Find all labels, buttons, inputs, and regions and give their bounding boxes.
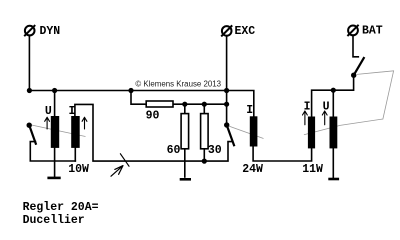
arrow up coil U 11W bbox=[322, 111, 327, 125]
wire coil U(10W) bottom to ground bbox=[54, 148, 56, 177]
coil U 11W bbox=[330, 117, 338, 149]
node R90-R60 bbox=[182, 102, 187, 107]
coil I 24W bbox=[250, 116, 258, 146]
svg-text:10W: 10W bbox=[68, 163, 89, 176]
node rail-R30 bbox=[202, 159, 207, 164]
svg-text:BAT: BAT bbox=[362, 25, 383, 38]
terminal BAT bbox=[348, 26, 358, 36]
linkage armature polygon BAT relay bbox=[304, 71, 394, 135]
coil I 11W bbox=[308, 117, 315, 149]
svg-text:EXC: EXC bbox=[235, 25, 256, 38]
svg-text:30: 30 bbox=[208, 144, 222, 157]
svg-text:60: 60 bbox=[167, 144, 181, 157]
node bus-coilU bbox=[52, 88, 57, 93]
wire EXC drop bbox=[226, 36, 228, 125]
resistor R 60 bbox=[181, 114, 189, 149]
svg-text:11W: 11W bbox=[302, 163, 323, 176]
svg-text:U: U bbox=[323, 101, 330, 114]
arrow up coil I 10W bbox=[82, 117, 87, 129]
node R90-EXC bbox=[224, 102, 229, 107]
wire DYN drop bbox=[28, 35, 30, 90]
svg-text:I: I bbox=[304, 101, 311, 114]
pivot EXC switch bbox=[224, 122, 229, 127]
svg-text:U: U bbox=[45, 105, 52, 118]
ground right bbox=[328, 178, 339, 181]
arrow up coil U 10W bbox=[45, 117, 50, 129]
terminal EXC bbox=[222, 26, 232, 36]
node R90-R30 bbox=[202, 102, 207, 107]
switch arm at DYN bbox=[29, 125, 36, 144]
resistor R 30 bbox=[201, 114, 209, 149]
ground left bbox=[47, 177, 60, 180]
svg-text:90: 90 bbox=[146, 109, 160, 122]
svg-text:I: I bbox=[246, 104, 253, 117]
pivot BAT switch bbox=[351, 73, 356, 78]
ground middle bbox=[180, 178, 191, 181]
node bus-DYN bbox=[27, 88, 32, 93]
wire BAT drop and fixed contact seat bbox=[353, 35, 358, 57]
svg-text:Regler 20A=: Regler 20A= bbox=[23, 201, 99, 214]
wire bus to 24W coil bbox=[29, 91, 253, 117]
linkage line left relay bbox=[31, 125, 86, 137]
adjustment arrow on rail bbox=[111, 154, 129, 176]
wire resistor 60 to ground bbox=[184, 149, 186, 177]
coil U 10W bbox=[51, 116, 59, 148]
wire left switch seat and rail A bbox=[30, 142, 75, 161]
wire coil U(11W) top drop bbox=[332, 90, 334, 116]
terminal DYN bbox=[25, 26, 35, 36]
svg-text:Ducellier: Ducellier bbox=[23, 214, 85, 227]
wire U-coil(10W) top drop bbox=[54, 91, 56, 117]
node bus-R90 bbox=[128, 88, 133, 93]
svg-text:24W: 24W bbox=[242, 163, 263, 176]
svg-text:DYN: DYN bbox=[40, 25, 61, 38]
wire resistor 30 drop to rail bbox=[203, 149, 205, 161]
linkage line EXC relay bbox=[228, 126, 264, 139]
wire stub to resistor 30 bbox=[203, 104, 205, 113]
wire coil 24W bottom link to coil I(11W) bbox=[253, 146, 312, 161]
coil I 10W bbox=[71, 116, 80, 148]
svg-text:© Klemens Krause 2013: © Klemens Krause 2013 bbox=[135, 80, 221, 89]
resistor R 90 bbox=[146, 101, 173, 107]
svg-text:I: I bbox=[69, 105, 76, 118]
wire coil U(11W) bottom to ground bbox=[332, 148, 334, 177]
node BAT bus-coilU bbox=[331, 88, 336, 93]
switch arm at BAT bbox=[354, 58, 364, 75]
wire coil I(10W) bottom drop bbox=[74, 148, 76, 161]
arrow up coil I 11W bbox=[303, 111, 308, 125]
wire coil I(10W) top loop and bottom rail to EXC contact seat bbox=[75, 104, 232, 161]
wire corner to resistor 90 bbox=[131, 91, 146, 105]
wire stub to resistor 60 bbox=[184, 104, 186, 113]
pivot DYN switch bbox=[27, 123, 32, 128]
wire BAT pivot to bus and coil I(11W) drop bbox=[312, 75, 354, 116]
wire resistor 90 right to EXC line bbox=[173, 103, 227, 105]
node bus-EXC bbox=[224, 88, 229, 93]
switch arm at EXC bbox=[227, 125, 234, 145]
